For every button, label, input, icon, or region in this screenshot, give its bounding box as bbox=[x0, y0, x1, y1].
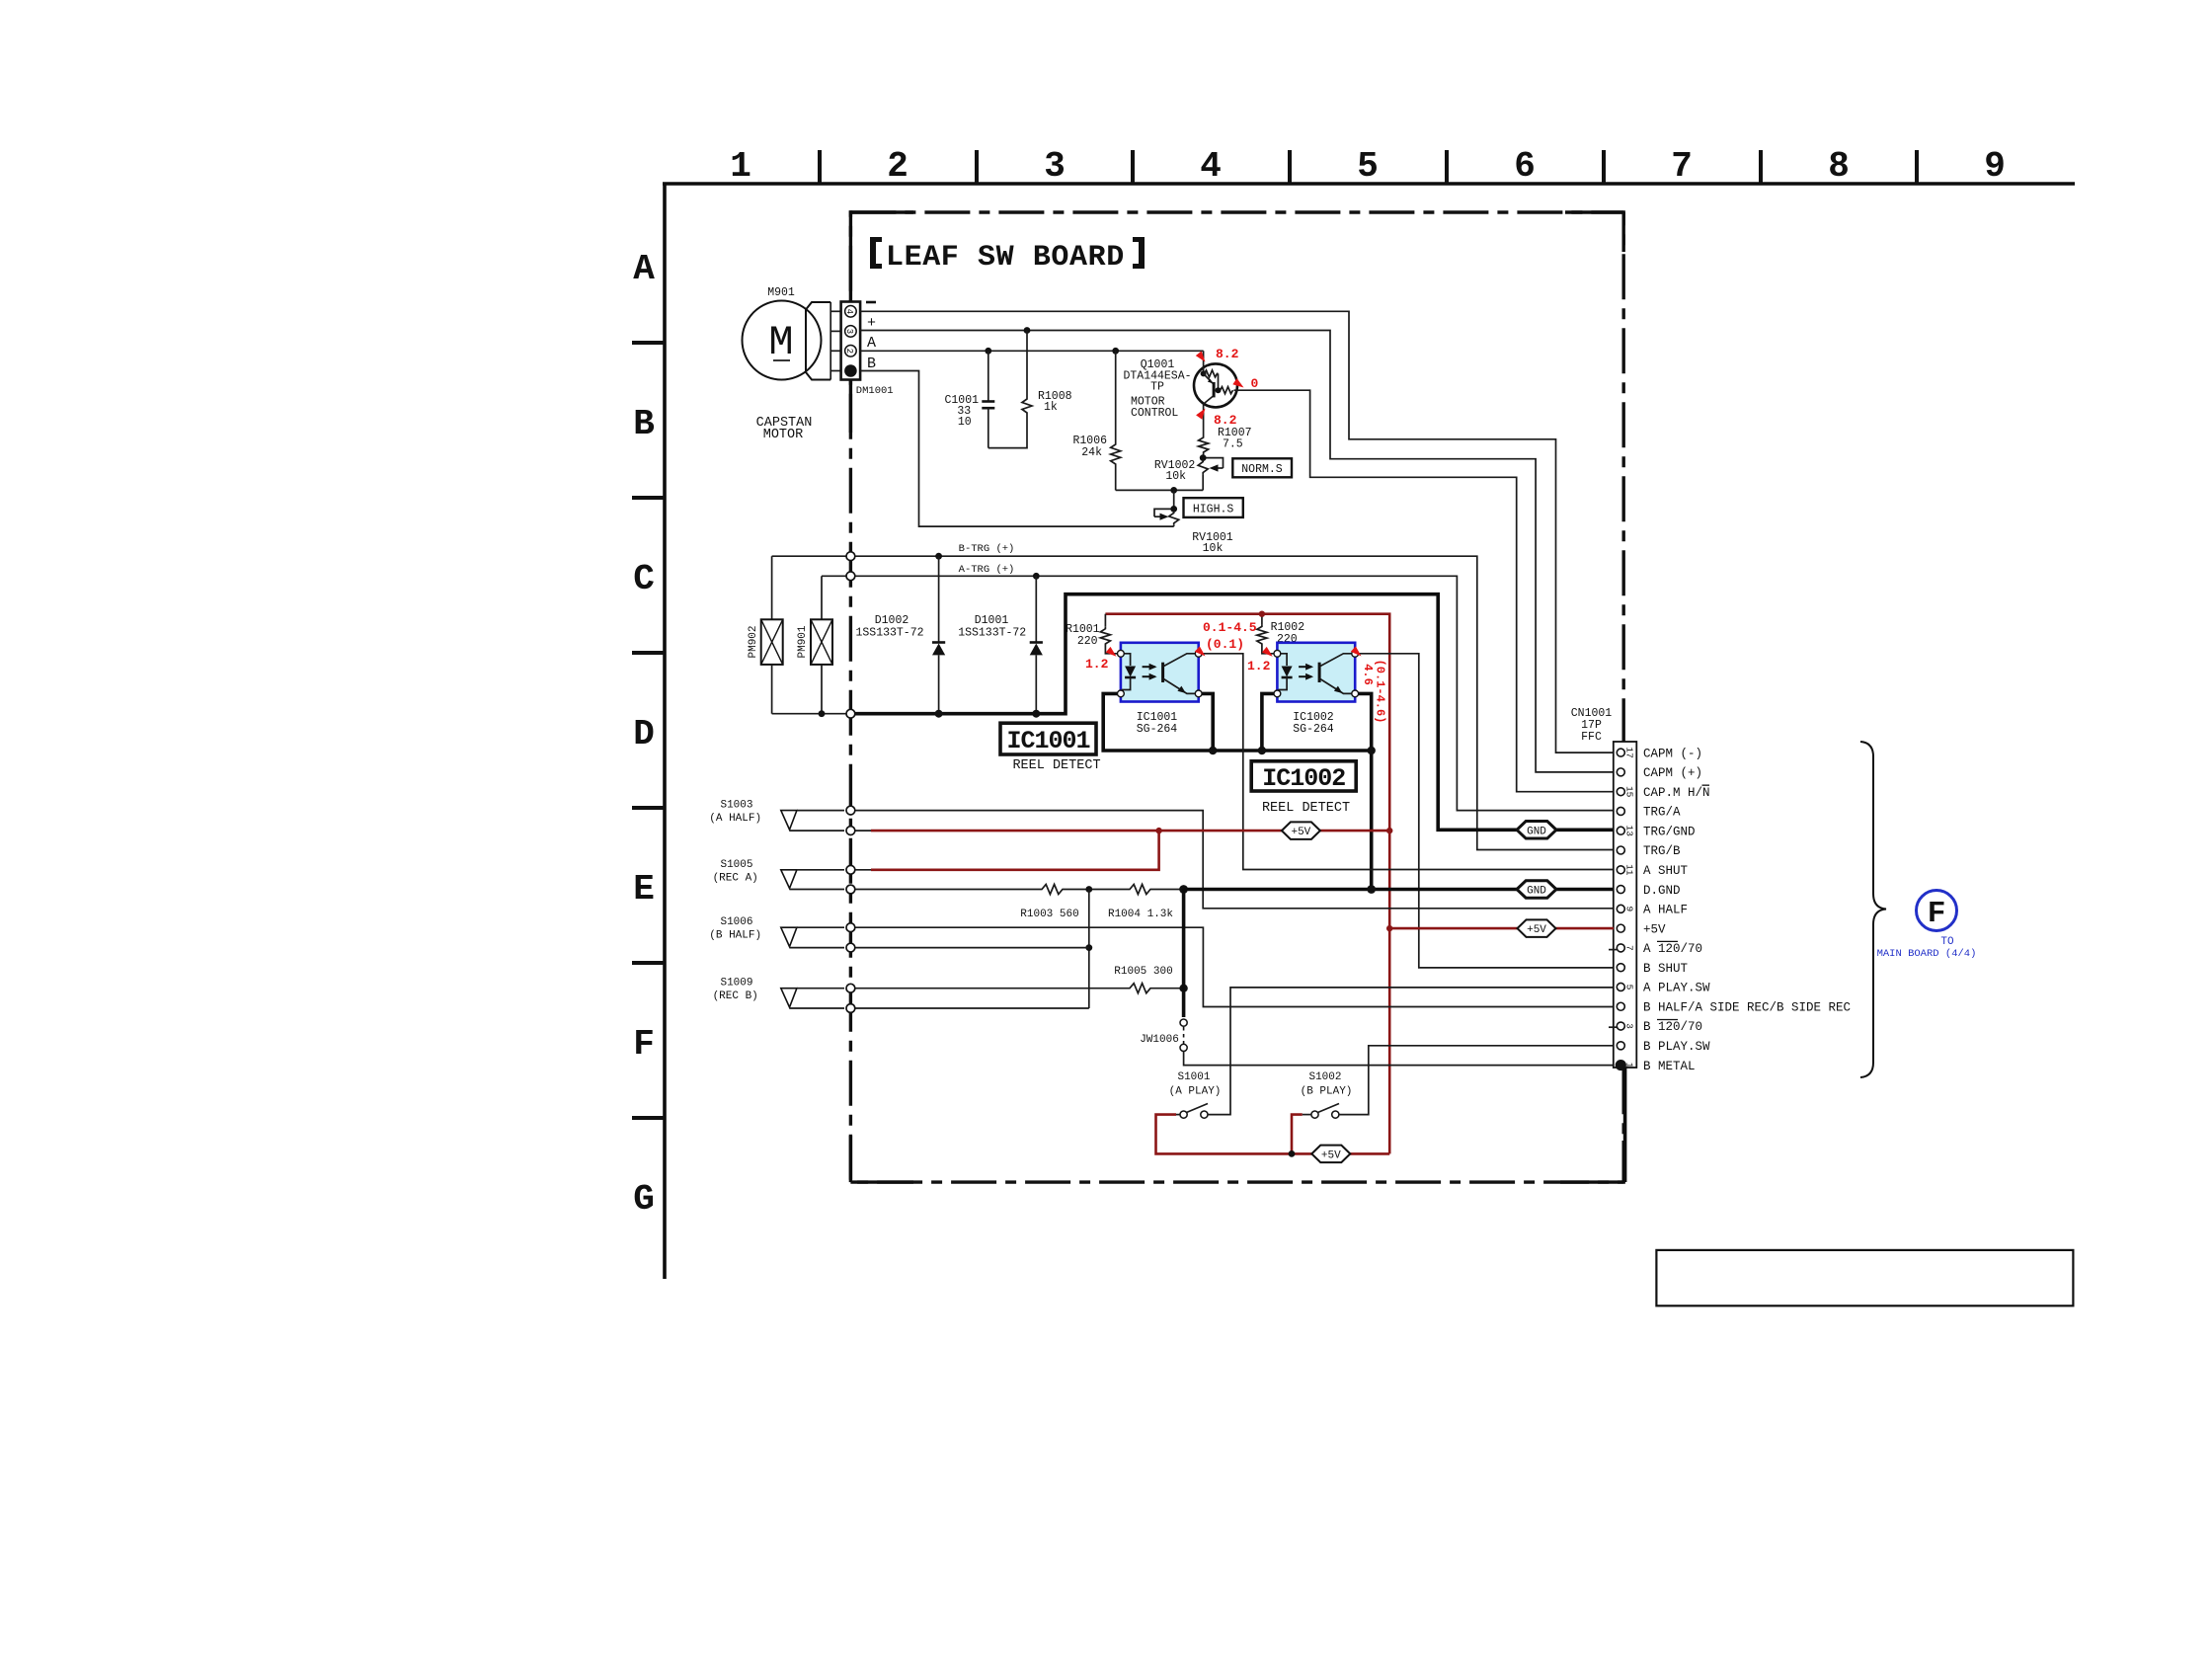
node R1005 thick junction bbox=[1179, 985, 1187, 992]
wire HIGH.S drop bbox=[1173, 490, 1175, 509]
trimmer RV1002 wiper arrow bbox=[1207, 458, 1224, 468]
label box IC1001 bold bbox=[1000, 723, 1096, 754]
wire S1003 top to A HALF pin bbox=[852, 811, 1614, 909]
svg-text:10k: 10k bbox=[1203, 542, 1224, 555]
wire JW1006 to B METAL pin bbox=[1184, 1052, 1614, 1066]
connector CN1001 pin 13 TRG/GND bbox=[1617, 827, 1624, 834]
wire motor plus to CAPM(+) pin bbox=[860, 331, 1614, 772]
wire S1003 bottom red +5V bbox=[852, 830, 871, 831]
svg-text:+5V: +5V bbox=[1291, 827, 1310, 838]
svg-text:4: 4 bbox=[844, 309, 854, 314]
wire GND thick to D.GND pin bbox=[1184, 888, 1614, 892]
svg-text:(B HALF): (B HALF) bbox=[709, 930, 761, 942]
wire IC1002 collector to B SHUT pin bbox=[1359, 654, 1614, 968]
node B-TRG D1002 junction bbox=[935, 553, 942, 560]
connector CN1001 pin 12 TRG/B bbox=[1617, 846, 1624, 854]
label box IC1002 bold bbox=[1251, 761, 1356, 791]
wire IC1002 right drop thick to GND node bbox=[1359, 693, 1372, 889]
svg-text:5: 5 bbox=[1357, 146, 1379, 187]
border ruler left line bbox=[663, 184, 667, 1279]
switch S1006 symbol bbox=[781, 927, 797, 946]
svg-text:1SS133T-72: 1SS133T-72 bbox=[958, 627, 1026, 640]
svg-text:13: 13 bbox=[1624, 826, 1635, 837]
svg-text:1: 1 bbox=[730, 146, 751, 187]
switch S1003 symbol bbox=[781, 811, 797, 831]
svg-text:GND: GND bbox=[1527, 886, 1546, 898]
wire S1002 right to B PLAY.SW pin bbox=[1339, 1046, 1614, 1115]
optocoupler IC1001 body bbox=[1121, 643, 1199, 702]
resistor R1002 220 bbox=[1261, 614, 1263, 625]
svg-text:GND: GND bbox=[1527, 826, 1546, 837]
svg-text:6: 6 bbox=[1514, 146, 1536, 187]
node red bottom rail junction bbox=[1289, 1150, 1296, 1157]
capstan motor M901 circle bbox=[743, 301, 822, 380]
svg-text:7.5: 7.5 bbox=[1223, 438, 1243, 451]
node junction A line C1001 bbox=[985, 348, 991, 355]
node D1001 rail junction bbox=[1032, 710, 1040, 718]
svg-text:1SS133T-72: 1SS133T-72 bbox=[855, 627, 923, 640]
wire rail R1006 RV1002 bottom bbox=[1116, 489, 1204, 491]
wire IC1001 emitter loop thick bbox=[1103, 693, 1372, 751]
svg-text:3: 3 bbox=[1624, 1023, 1635, 1029]
svg-text:B: B bbox=[867, 356, 876, 372]
connector CN1001 pin 11 A SHUT bbox=[1617, 866, 1624, 874]
svg-text:24k: 24k bbox=[1081, 446, 1102, 459]
resistor R1003 560 bbox=[1040, 885, 1065, 895]
wire S1005 top red riser bbox=[852, 869, 871, 871]
switch S1005 bottom wire bbox=[790, 889, 845, 891]
svg-text:15: 15 bbox=[1624, 786, 1635, 798]
connector CN1001 pin 3 B 120/70 bbox=[1617, 1022, 1624, 1030]
svg-text:SG-264: SG-264 bbox=[1137, 723, 1178, 736]
svg-text:0.1-4.5: 0.1-4.5 bbox=[1203, 620, 1257, 635]
wire REC common drop bbox=[1088, 890, 1090, 1009]
annotation red 1.2 IC1002 bbox=[1262, 647, 1273, 657]
brace to main board bbox=[1860, 742, 1886, 1077]
wire B METAL thick below connector bbox=[1623, 1068, 1627, 1182]
wire B-TRG to TRG/B pin bbox=[772, 556, 1614, 849]
ruler ticks top bbox=[820, 150, 1917, 184]
node R1003 R1004 junction bbox=[1085, 886, 1092, 893]
node R1007 RV1002 junction bbox=[1200, 454, 1207, 461]
node IC1002 left rail junction bbox=[1258, 747, 1266, 754]
svg-text:DM1001: DM1001 bbox=[856, 385, 894, 397]
svg-text:S1002: S1002 bbox=[1308, 1071, 1341, 1083]
switch S1001 A PLAY bbox=[1180, 1111, 1187, 1118]
capstan motor housing bbox=[806, 302, 830, 380]
switch S1006 top wire bbox=[797, 926, 844, 928]
svg-text:A HALF: A HALF bbox=[1643, 904, 1688, 917]
switch S1009 top wire bbox=[797, 988, 844, 990]
optocoupler IC1002 phototransistor bbox=[1318, 663, 1321, 682]
svg-text:F: F bbox=[1928, 897, 1946, 931]
svg-text:1.2: 1.2 bbox=[1247, 659, 1271, 673]
svg-text:(0.1-4.6): (0.1-4.6) bbox=[1373, 660, 1386, 724]
wire thick GND drop to JW1006 bbox=[1182, 890, 1186, 1018]
transistor Q1001 internal emitter resistor bbox=[1205, 370, 1219, 377]
svg-text:CAPM (-): CAPM (-) bbox=[1643, 747, 1702, 760]
svg-text:B: B bbox=[633, 404, 655, 444]
connector CN1001 pin 17 CAPM (-) bbox=[1617, 749, 1624, 756]
node junction A line R1006 bbox=[1112, 348, 1119, 355]
svg-text:10k: 10k bbox=[1165, 470, 1186, 483]
annotation red 0 base bbox=[1232, 378, 1243, 387]
wire S1002 red riser bbox=[1292, 1115, 1303, 1154]
transistor Q1001 circle bbox=[1194, 363, 1237, 407]
svg-text:9: 9 bbox=[1984, 146, 2006, 187]
boundary crossing circles bbox=[846, 552, 855, 561]
svg-text:S1005: S1005 bbox=[720, 859, 752, 871]
wire C1001 R1008 bottom link bbox=[988, 415, 1027, 448]
svg-text:+5V: +5V bbox=[1643, 922, 1666, 936]
annotation red 8.2 top bbox=[1196, 352, 1206, 362]
svg-text:TRG/B: TRG/B bbox=[1643, 844, 1681, 858]
svg-text:(A HALF): (A HALF) bbox=[709, 813, 761, 825]
svg-text:PM902: PM902 bbox=[748, 625, 759, 658]
wire S1005 bottom through R1003 R1004 to GND node bbox=[852, 889, 1040, 891]
wire Q1001 base to CAP.M pin bbox=[1237, 390, 1614, 792]
node rail HIGH.S junction bbox=[1170, 487, 1177, 494]
svg-text:D1002: D1002 bbox=[875, 614, 909, 627]
label GND arrow TRG/GND bbox=[1517, 822, 1556, 839]
svg-text:JW1006: JW1006 bbox=[1140, 1034, 1179, 1046]
svg-text:(0.1): (0.1) bbox=[1206, 637, 1244, 652]
wire +5V top rail red bbox=[1105, 614, 1389, 1154]
ruler column numbers 1-9 bbox=[730, 146, 2006, 187]
node +5V red junction main vertical bbox=[1386, 828, 1392, 833]
svg-text:A: A bbox=[633, 249, 655, 289]
svg-text:S1009: S1009 bbox=[720, 978, 752, 990]
annotation red 1.2 IC1001 bbox=[1106, 647, 1117, 657]
wire motor minus to CAPM(-) pin bbox=[860, 311, 1614, 752]
pin stub B 120/70 bbox=[1609, 1026, 1617, 1028]
svg-text:B SHUT: B SHUT bbox=[1643, 962, 1689, 976]
resistor R1001 220 bbox=[1104, 614, 1106, 627]
coil PM901 bbox=[821, 576, 823, 619]
svg-text:A 120/70: A 120/70 bbox=[1643, 942, 1702, 956]
annotation red wedge IC1002 collector bbox=[1351, 646, 1362, 656]
motor pin labels - + A B bbox=[866, 301, 876, 304]
svg-text:A-TRG (+): A-TRG (+) bbox=[959, 564, 1015, 576]
connector CN1001 pin 1 B METAL bbox=[1616, 1060, 1626, 1070]
svg-text:FFC: FFC bbox=[1581, 731, 1602, 744]
switch S1005 symbol bbox=[781, 870, 797, 889]
connector CN1001 pin 4 B HALF/A SIDE REC/B SIDE REC bbox=[1617, 1002, 1624, 1010]
wire motor A to transistor emitter bbox=[860, 350, 1204, 352]
svg-text:5: 5 bbox=[1624, 985, 1635, 990]
svg-text:CAPM (+): CAPM (+) bbox=[1643, 766, 1702, 780]
trimmer RV1002 10k bbox=[1198, 460, 1208, 475]
transistor Q1001 emitter arrow bbox=[1204, 373, 1214, 383]
switch S1009 bottom wire bbox=[790, 1007, 845, 1009]
svg-text:TRG/GND: TRG/GND bbox=[1643, 825, 1696, 838]
svg-text:F: F bbox=[633, 1024, 655, 1065]
label +5V arrow pin row bbox=[1518, 919, 1556, 937]
svg-text:8: 8 bbox=[1828, 146, 1850, 187]
svg-text:3: 3 bbox=[844, 329, 854, 334]
svg-text:TP: TP bbox=[1150, 381, 1164, 394]
label +5V arrow on switch rail bbox=[1282, 822, 1320, 839]
connector CN1001 pin 9 A HALF bbox=[1617, 905, 1624, 912]
wire motor B to RV1001 bottom bbox=[860, 371, 1174, 527]
node junction + line R1008 bbox=[1024, 327, 1031, 334]
wire S1009 top through R1005 bbox=[852, 988, 1128, 990]
connector F circle to main board bbox=[1917, 891, 1957, 931]
node IC1002 rail junction bbox=[1368, 747, 1376, 754]
svg-text:+5V: +5V bbox=[1527, 924, 1546, 936]
switch S1003 top wire bbox=[797, 810, 844, 812]
svg-text:(B PLAY): (B PLAY) bbox=[1301, 1086, 1353, 1098]
wire S1006 bottom bbox=[852, 947, 1089, 949]
svg-text:2: 2 bbox=[844, 349, 854, 354]
board outline corner solids bbox=[850, 210, 1623, 1182]
annotation red wedge IC1001 collector bbox=[1195, 646, 1206, 656]
wire S1009 bottom bbox=[852, 1007, 1089, 1009]
jumper JW1006 bbox=[1180, 1019, 1187, 1026]
svg-text:220: 220 bbox=[1077, 635, 1098, 648]
label box NORM.S bbox=[1232, 458, 1292, 477]
wire +5V pin red bbox=[1389, 927, 1614, 930]
transistor Q1001 emitter lead bbox=[1203, 351, 1205, 373]
optocoupler IC1002 light arrows bbox=[1299, 666, 1311, 668]
node R1002 red rail junction bbox=[1259, 611, 1265, 617]
svg-text:10: 10 bbox=[958, 416, 972, 429]
svg-text:R1003 560: R1003 560 bbox=[1020, 909, 1078, 920]
switch S1003 bottom wire bbox=[790, 830, 845, 831]
wire GND rail thick to TRG/GND pin bbox=[854, 594, 1614, 831]
optocoupler IC1001 LED bbox=[1123, 654, 1131, 666]
connector CN1001 pin 2 B PLAY.SW bbox=[1617, 1042, 1624, 1050]
resistor R1007 7.5 bbox=[1199, 436, 1209, 454]
connector CN1001 body bbox=[1614, 742, 1637, 1068]
annotation red 8.2 bottom bbox=[1196, 409, 1205, 420]
svg-text:1: 1 bbox=[1624, 1063, 1635, 1069]
svg-text:3: 3 bbox=[1044, 146, 1066, 187]
trimmer RV1001 10k bbox=[1169, 511, 1179, 524]
svg-text:8.2: 8.2 bbox=[1214, 413, 1237, 428]
ruler row letters A-G bbox=[633, 249, 655, 1220]
svg-text:M: M bbox=[768, 319, 793, 366]
svg-text:REEL DETECT: REEL DETECT bbox=[1012, 758, 1100, 773]
wire PM bottom rail thin bbox=[772, 713, 854, 715]
connector CN1001 pin 5 A PLAY.SW bbox=[1617, 983, 1624, 990]
node PM901 rail junction bbox=[819, 710, 826, 717]
motor pin stubs bbox=[830, 310, 840, 312]
node S1006 bottom junction bbox=[1085, 944, 1092, 951]
svg-text:S1006: S1006 bbox=[720, 916, 752, 928]
svg-text:C: C bbox=[633, 559, 655, 599]
svg-text:LEAF SW BOARD: LEAF SW BOARD bbox=[886, 241, 1125, 275]
transistor Q1001 internal base resistor bbox=[1221, 387, 1233, 394]
svg-text:B HALF/A SIDE REC/B SIDE REC: B HALF/A SIDE REC/B SIDE REC bbox=[1643, 1000, 1851, 1014]
pin stub A 120/70 bbox=[1609, 949, 1617, 951]
svg-text:R1004 1.3k: R1004 1.3k bbox=[1108, 909, 1173, 920]
svg-text:E: E bbox=[633, 869, 655, 910]
resistor R1004 1.3k bbox=[1128, 885, 1152, 895]
optocoupler IC1002 pins bbox=[1274, 650, 1281, 657]
wire +5V bottom rail red bbox=[1156, 1115, 1390, 1154]
node IC1001 rail junction bbox=[1209, 747, 1217, 754]
svg-text:11: 11 bbox=[1624, 864, 1635, 876]
connector CN1001 pin 7 A 120/70 bbox=[1617, 944, 1624, 952]
svg-text:D1001: D1001 bbox=[975, 614, 1009, 627]
svg-text:(REC B): (REC B) bbox=[713, 990, 758, 1002]
label GND arrow D.GND bbox=[1517, 881, 1556, 899]
svg-text:+: + bbox=[867, 315, 876, 332]
resistor R1005 300 bbox=[1128, 984, 1152, 993]
svg-text:9: 9 bbox=[1624, 906, 1635, 911]
svg-text:B-TRG (+): B-TRG (+) bbox=[959, 543, 1015, 555]
svg-text:4: 4 bbox=[1200, 146, 1222, 187]
connector DM1001 pin 3 bbox=[845, 326, 857, 338]
svg-text:CONTROL: CONTROL bbox=[1131, 407, 1178, 420]
transistor Q1001 base bar bbox=[1213, 382, 1216, 397]
node D.GND main junction bbox=[1179, 885, 1188, 894]
svg-text:IC1001: IC1001 bbox=[1006, 727, 1089, 755]
connector CN1001 pin 14 TRG/A bbox=[1617, 807, 1624, 815]
connector CN1001 pin 15 CAP.M H/N bbox=[1617, 788, 1624, 796]
capacitor C1001 bbox=[987, 351, 989, 401]
connector DM1001 pin 1 filled bbox=[844, 364, 857, 377]
svg-text:MOTOR: MOTOR bbox=[763, 428, 804, 442]
svg-text:B 120/70: B 120/70 bbox=[1643, 1020, 1702, 1034]
ruler ticks left bbox=[632, 343, 665, 1118]
svg-text:G: G bbox=[633, 1179, 655, 1220]
switch S1006 bottom wire bbox=[790, 947, 845, 949]
svg-text:7: 7 bbox=[1671, 146, 1693, 187]
svg-text:B METAL: B METAL bbox=[1643, 1060, 1696, 1073]
wire IC1002 left emitter drop thick bbox=[1262, 693, 1274, 751]
svg-text:+5V: +5V bbox=[1321, 1149, 1341, 1161]
wire S1006 top to B HALF pin bbox=[852, 927, 1614, 1006]
svg-text:0: 0 bbox=[1251, 376, 1259, 391]
svg-text:1.2: 1.2 bbox=[1085, 657, 1109, 672]
board outline LEAF SW BOARD dash-dot box bbox=[850, 212, 1623, 1182]
switch S1009 symbol bbox=[781, 989, 797, 1007]
node D1002 rail junction bbox=[935, 710, 943, 718]
wire A-TRG to TRG/A pin bbox=[822, 576, 1614, 810]
resistor R1008 1k bbox=[1026, 331, 1028, 398]
svg-text:2: 2 bbox=[887, 146, 908, 187]
connector CN1001 pin 8 +5V bbox=[1617, 924, 1624, 932]
svg-text:D: D bbox=[633, 714, 655, 754]
svg-text:M901: M901 bbox=[767, 286, 795, 299]
revision box bottom right bbox=[1656, 1250, 2073, 1306]
svg-text:D.GND: D.GND bbox=[1643, 884, 1681, 898]
svg-text:8.2: 8.2 bbox=[1216, 347, 1239, 361]
optocoupler IC1001 light arrows bbox=[1143, 666, 1155, 668]
svg-text:REEL DETECT: REEL DETECT bbox=[1262, 801, 1350, 816]
diode D1001 1SS133T-72 bbox=[1035, 576, 1037, 642]
svg-text:IC1002: IC1002 bbox=[1262, 764, 1345, 793]
svg-text:4.6: 4.6 bbox=[1361, 664, 1375, 685]
svg-text:S1003: S1003 bbox=[720, 800, 752, 812]
resistor R1006 24k bbox=[1115, 351, 1117, 442]
diode D1002 1SS133T-72 bbox=[938, 556, 940, 642]
optocoupler IC1001 phototransistor bbox=[1161, 663, 1164, 682]
connector DM1001 box bbox=[841, 302, 861, 380]
optocoupler IC1002 LED bbox=[1279, 654, 1287, 666]
svg-text:MAIN BOARD (4/4): MAIN BOARD (4/4) bbox=[1877, 948, 1977, 960]
connector DM1001 pin 2 bbox=[845, 346, 857, 357]
wire IC1001 collector-emitter right drop thick bbox=[1202, 693, 1213, 751]
node +5V pin red junction bbox=[1386, 925, 1392, 931]
connector CN1001 pin 10 D.GND bbox=[1617, 886, 1624, 894]
connector CN1001 pin 16 CAPM (+) bbox=[1617, 768, 1624, 776]
node +5V red junction S1005 bbox=[1155, 828, 1161, 833]
svg-text:A SHUT: A SHUT bbox=[1643, 864, 1689, 878]
border ruler top line bbox=[663, 182, 2075, 186]
svg-text:TO: TO bbox=[1940, 936, 1954, 948]
switch S1002 B PLAY bbox=[1311, 1111, 1318, 1118]
svg-text:B PLAY.SW: B PLAY.SW bbox=[1643, 1040, 1710, 1054]
wire IC1001 collector to A SHUT pin bbox=[1201, 654, 1614, 870]
trimmer RV1001 wiper arrow bbox=[1154, 509, 1171, 516]
switch S1005 top wire bbox=[797, 869, 844, 871]
node A-TRG D1001 junction bbox=[1033, 573, 1040, 580]
svg-text:1k: 1k bbox=[1044, 401, 1058, 414]
svg-text:17: 17 bbox=[1624, 747, 1635, 757]
node RV1001 top junction bbox=[1170, 506, 1177, 513]
svg-text:SG-264: SG-264 bbox=[1293, 723, 1334, 736]
svg-text:A PLAY.SW: A PLAY.SW bbox=[1643, 982, 1710, 995]
svg-text:(REC A): (REC A) bbox=[713, 872, 758, 884]
svg-text:S1001: S1001 bbox=[1177, 1071, 1210, 1083]
optocoupler IC1002 body bbox=[1277, 643, 1355, 702]
node IC1002 GND junction bbox=[1367, 885, 1376, 894]
connector DM1001 pin 4 bbox=[845, 306, 857, 318]
optocoupler IC1001 pins bbox=[1118, 650, 1125, 657]
svg-text:7: 7 bbox=[1624, 945, 1635, 951]
connector CN1001 pin 6 B SHUT bbox=[1617, 964, 1624, 972]
label +5V arrow bottom bbox=[1311, 1146, 1350, 1163]
svg-text:PM901: PM901 bbox=[797, 625, 809, 658]
title LEAF SW BOARD bbox=[870, 237, 1145, 269]
svg-text:R1005 300: R1005 300 bbox=[1114, 966, 1172, 978]
svg-text:TRG/A: TRG/A bbox=[1643, 806, 1681, 820]
coil PM902 bbox=[771, 556, 773, 619]
wire S1001 right to A PLAY.SW pin bbox=[1208, 988, 1614, 1115]
svg-text:(A PLAY): (A PLAY) bbox=[1169, 1086, 1222, 1098]
label box HIGH.S bbox=[1184, 498, 1243, 517]
svg-text:NORM.S: NORM.S bbox=[1241, 463, 1283, 476]
svg-text:A: A bbox=[867, 335, 876, 352]
svg-text:HIGH.S: HIGH.S bbox=[1193, 504, 1234, 516]
transistor Q1001 collector lead bbox=[1204, 396, 1215, 405]
svg-text:CAP.M H/N: CAP.M H/N bbox=[1643, 786, 1710, 800]
